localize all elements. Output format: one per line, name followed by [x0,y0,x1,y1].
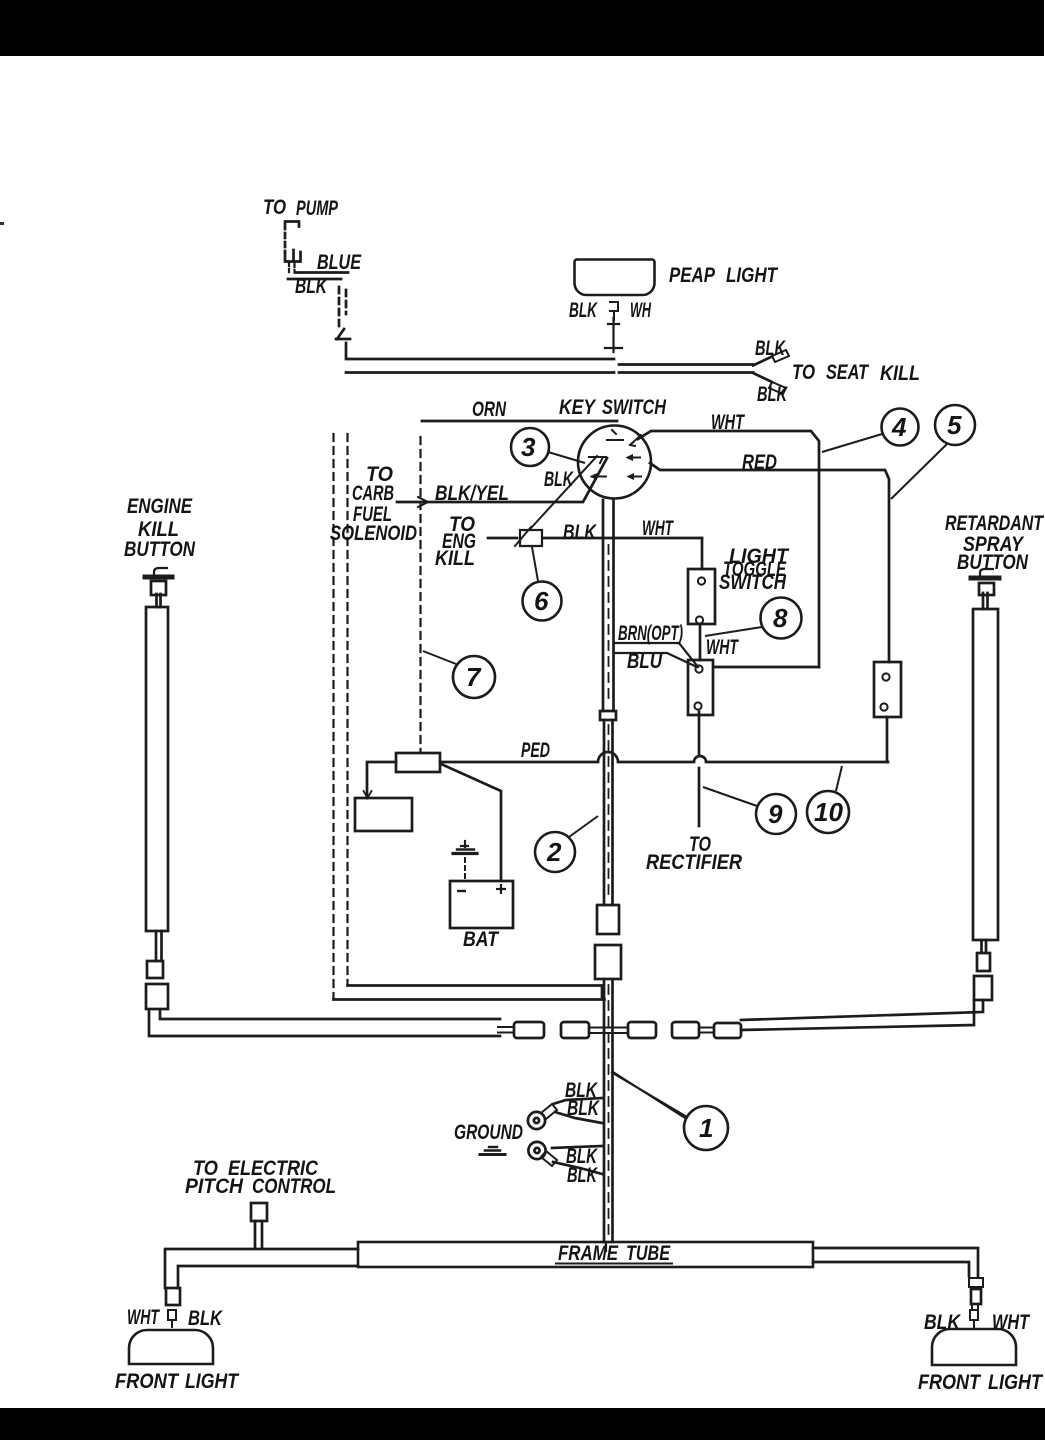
svg-text:WHT: WHT [642,517,674,540]
svg-text:10: 10 [814,797,843,827]
svg-text:CONTROL: CONTROL [252,1175,336,1198]
svg-text:LIGHT: LIGHT [726,264,779,287]
svg-text:BLK/YEL: BLK/YEL [435,482,509,505]
svg-text:BLK: BLK [924,1311,962,1334]
svg-text:LIGHT: LIGHT [988,1371,1044,1394]
svg-text:SWITCH: SWITCH [602,396,667,419]
svg-text:CARB: CARB [352,482,394,505]
svg-text:PEAP: PEAP [669,264,716,287]
svg-text:GROUND: GROUND [454,1121,523,1144]
svg-text:BLK: BLK [563,521,597,544]
svg-text:FRONT: FRONT [918,1371,982,1394]
svg-text:TO: TO [263,196,286,219]
svg-text:SEAT: SEAT [826,361,870,384]
svg-text:WHT: WHT [127,1306,160,1329]
svg-text:RETARDANT: RETARDANT [945,512,1045,535]
svg-text:3: 3 [521,432,536,462]
svg-text:FRONT: FRONT [115,1370,180,1393]
svg-text:6: 6 [534,586,549,616]
svg-text:BRN(OPT): BRN(OPT) [618,622,683,645]
svg-text:SOLENOID: SOLENOID [330,522,417,545]
svg-text:KILL: KILL [435,547,475,570]
svg-text:WHT: WHT [711,411,745,434]
svg-text:BLU: BLU [627,650,663,673]
svg-text:LIGHT: LIGHT [185,1370,240,1393]
svg-text:KEY: KEY [559,396,597,419]
svg-text:BLK: BLK [755,337,786,360]
svg-text:BUTTON: BUTTON [124,538,196,561]
svg-text:1: 1 [699,1113,713,1143]
svg-text:ENGINE: ENGINE [127,495,193,518]
svg-text:BLK: BLK [544,468,574,491]
svg-text:BLK: BLK [567,1164,598,1187]
svg-text:BLK: BLK [295,275,328,298]
svg-text:WHT: WHT [992,1311,1031,1334]
svg-text:RED: RED [742,451,777,474]
svg-text:BLK: BLK [757,383,788,406]
svg-text:WHT: WHT [706,636,739,659]
svg-text:KILL: KILL [880,362,920,385]
svg-text:ORN: ORN [472,398,507,421]
svg-text:2: 2 [546,837,562,867]
svg-text:WH: WH [630,299,651,322]
svg-text:PITCH: PITCH [185,1175,244,1198]
svg-text:PUMP: PUMP [296,197,339,220]
svg-text:8: 8 [773,603,788,633]
svg-text:4: 4 [891,412,907,442]
svg-text:TUBE: TUBE [626,1242,671,1265]
svg-text:BAT: BAT [463,928,500,951]
svg-text:BUTTON: BUTTON [957,551,1029,574]
svg-text:PED: PED [521,739,550,762]
svg-text:BLK: BLK [567,1097,600,1120]
svg-text:TO: TO [792,361,815,384]
svg-text:BLK: BLK [569,299,598,322]
svg-text:5: 5 [947,410,962,440]
svg-text:BLK: BLK [188,1307,223,1330]
svg-text:SWITCH: SWITCH [719,571,787,594]
svg-text:7: 7 [466,662,482,692]
svg-text:BLUE: BLUE [317,251,362,274]
svg-text:RECTIFIER: RECTIFIER [646,851,743,874]
svg-text:FRAME: FRAME [558,1242,619,1265]
svg-text:9: 9 [768,799,783,829]
